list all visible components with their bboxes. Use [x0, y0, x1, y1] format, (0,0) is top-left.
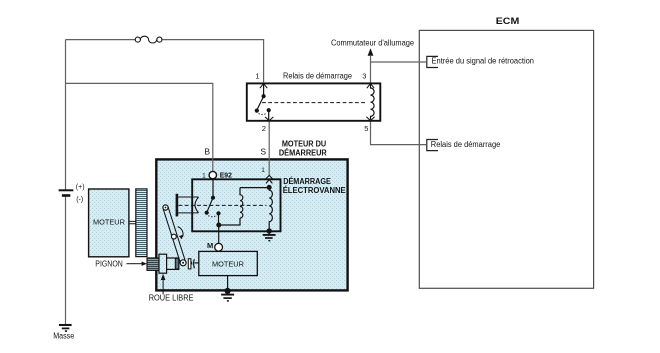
svg-text:MOTEUR DU: MOTEUR DU — [282, 139, 326, 148]
pull-in coil — [240, 188, 243, 219]
svg-text:Masse: Masse — [53, 331, 74, 340]
wire: battery positive vertical — [65, 40, 67, 190]
wire coil top to node — [240, 187, 269, 189]
svg-text:(+): (+) — [76, 184, 85, 191]
joint crescent — [193, 259, 196, 268]
wire: top feed to fuse — [66, 39, 136, 41]
wire solenoid to M terminal — [218, 225, 220, 244]
svg-text:2: 2 — [262, 124, 266, 133]
svg-text:Commutateur d'allumage: Commutateur d'allumage — [331, 38, 415, 47]
left motor box MOTEUR — [89, 189, 129, 257]
solenoid armature — [207, 198, 213, 213]
svg-text:Relais de démarrage: Relais de démarrage — [431, 140, 501, 149]
svg-text:ECM: ECM — [496, 16, 520, 26]
svg-text:5: 5 — [364, 124, 368, 133]
svg-text:1: 1 — [255, 72, 259, 81]
ground: solenoid — [268, 231, 270, 234]
wire: relay pin 3 to ignition switch arrow — [370, 56, 372, 83]
ignition switch arrow — [368, 48, 374, 56]
overrunning clutch body vertical — [159, 254, 167, 273]
svg-text:S: S — [260, 147, 266, 157]
ground: starter motor — [221, 294, 234, 296]
relay K1: Relais de démarrage — [247, 83, 380, 120]
wire: battery feed to terminal B — [66, 83, 213, 171]
lever mid pivot — [172, 234, 177, 239]
ECM U1 box — [419, 30, 593, 288]
svg-text:Relais de démarrage: Relais de démarrage — [283, 72, 353, 81]
wire contact to pin 2 — [268, 110, 270, 121]
ECM pin terminal: Entrée du signal de rétroaction — [427, 56, 438, 67]
svg-text:1: 1 — [202, 173, 206, 180]
solenoid box (démarrage électrovanne) — [192, 179, 280, 231]
gear rack — [136, 189, 147, 257]
svg-text:(-): (-) — [76, 197, 83, 204]
svg-text:E92: E92 — [220, 173, 232, 180]
svg-text:3: 3 — [362, 72, 366, 81]
fork bottom prong — [178, 212, 198, 214]
universal joint bar — [188, 259, 191, 269]
svg-text:MOTEUR: MOTEUR — [93, 218, 125, 227]
svg-text:DÉMARRAGE: DÉMARRAGE — [283, 177, 331, 186]
node: motor ground junction — [225, 288, 231, 294]
lever top pivot — [163, 205, 168, 210]
wire: feedback signal to ECM — [371, 61, 427, 63]
joint shaft to motor — [195, 262, 199, 264]
svg-text:PIGNON: PIGNON — [95, 260, 123, 269]
svg-text:B: B — [204, 147, 210, 157]
fuse F1 — [135, 37, 140, 42]
wire: relay pin 2 to terminal S — [268, 122, 270, 177]
node: motor feed junction — [216, 223, 221, 228]
svg-text:Entrée du signal de rétroactio: Entrée du signal de rétroaction — [432, 56, 535, 65]
moteur du démarreur (starter) shaded box — [156, 159, 347, 290]
svg-text:ÉLECTROVANNE: ÉLECTROVANNE — [283, 186, 347, 195]
node: solenoid S junction — [267, 185, 272, 190]
ground: Masse — [59, 324, 72, 326]
fork top prong — [178, 196, 198, 198]
motor shaft — [129, 221, 136, 223]
wire motor to ground — [227, 276, 229, 291]
relay coil pins 3-5 — [371, 83, 375, 120]
wire to motor contact — [218, 213, 220, 225]
wire junction to pull-in coil — [219, 218, 240, 225]
svg-text:DÉMARREUR: DÉMARREUR — [279, 148, 327, 157]
lever rotation arrow — [178, 227, 183, 237]
starter motor box MOTEUR — [199, 251, 257, 275]
svg-text:MOTEUR: MOTEUR — [212, 259, 244, 268]
overrunning clutch body horizontal — [167, 258, 179, 269]
svg-text:1: 1 — [261, 167, 265, 174]
solenoid switch wire from E92 — [212, 180, 214, 198]
mechanical link dashed — [179, 204, 267, 206]
svg-text:ROUE LIBRE: ROUE LIBRE — [149, 294, 194, 303]
ECM pin terminal: Relais de démarrage — [427, 140, 438, 151]
battery BT1 — [59, 189, 74, 191]
relay armature — [257, 96, 264, 110]
fork crescent — [195, 197, 199, 213]
plunger end plate — [176, 194, 179, 217]
clutch end cap — [175, 258, 179, 269]
relay contact travel (dotted) — [259, 113, 267, 115]
contact travel dotted — [208, 215, 217, 216]
lever bottom joint — [180, 260, 186, 266]
wire: fuse to relay pin 1 — [162, 40, 264, 83]
wire: relay pin 5 to ECM — [371, 121, 427, 144]
wire: battery negative to ground — [65, 196, 67, 325]
mechanical link (dashed) — [262, 102, 367, 104]
relay switch contact from pin 1 — [263, 83, 265, 96]
hold-in coil — [269, 187, 272, 228]
shift lever arm — [163, 207, 186, 264]
svg-text:M: M — [207, 241, 213, 250]
node: coil ground junction — [267, 228, 272, 233]
pinion gear block — [147, 258, 159, 271]
